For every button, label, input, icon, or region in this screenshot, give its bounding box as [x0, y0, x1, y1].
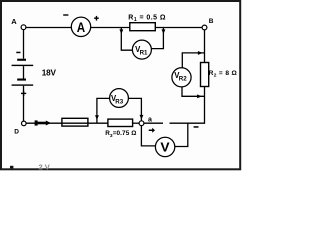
wire VR3 right branch — [128, 98, 141, 120]
node B — [202, 18, 214, 30]
svg-text:R2: R2 — [179, 75, 187, 82]
battery plus polarity — [21, 91, 26, 96]
current arrow I near node D — [35, 120, 51, 125]
wire R1 to node B — [155, 27, 202, 29]
svg-text:a: a — [148, 117, 152, 124]
voltmeter VR2 — [172, 68, 191, 87]
junction arrow VR2 bottom — [197, 94, 202, 98]
svg-text:18V: 18V — [42, 69, 57, 78]
voltmeter VR1 — [132, 40, 151, 59]
wire VR3 left branch — [97, 98, 110, 123]
svg-text:B: B — [209, 18, 214, 25]
ammeter A — [71, 17, 90, 36]
junction arrow right of R1 (from VR1) — [162, 29, 166, 34]
fuse box — [62, 118, 88, 126]
battery minus polarity — [16, 52, 20, 54]
svg-text:A: A — [77, 20, 86, 35]
node D — [14, 121, 26, 135]
resistor R2 — [201, 63, 209, 87]
wire V meter left branch to node C — [141, 126, 155, 146]
wire VR2 bottom branch — [182, 87, 205, 97]
svg-text:R3: R3 — [115, 98, 123, 105]
bottom wire segment from gap to node C — [144, 122, 163, 124]
wire VR1 right branch — [151, 28, 163, 49]
V meter plus polarity — [149, 128, 155, 133]
cropped answer text fragment at bottom — [10, 163, 50, 172]
svg-text:V: V — [160, 140, 170, 155]
junction arrow left of R1 (to VR1) — [119, 29, 123, 34]
junction arrow VR3 left — [95, 115, 99, 120]
voltmeter V — [155, 137, 174, 156]
V meter minus polarity — [194, 126, 199, 128]
ammeter plus polarity — [94, 16, 99, 21]
wire battery down to node D — [23, 86, 25, 121]
node C — [139, 117, 152, 126]
wire node D to R3 (through fuse box) — [26, 122, 108, 124]
svg-text:2 V: 2 V — [39, 163, 50, 172]
wire node C to R3 — [133, 122, 140, 124]
wire V meter right branch — [175, 123, 188, 146]
svg-text:A: A — [11, 17, 17, 26]
resistor R1 — [130, 23, 156, 31]
voltmeter VR3 — [110, 89, 129, 108]
svg-text:R1: R1 — [140, 50, 148, 57]
wire A down to battery — [23, 30, 25, 59]
svg-text:D: D — [14, 128, 19, 135]
wire VR1 left branch — [121, 28, 132, 51]
wire A to ammeter — [26, 27, 72, 29]
ammeter minus polarity — [63, 14, 68, 15]
junction arrow VR3 right — [140, 115, 144, 120]
wire ammeter to R1 — [91, 27, 131, 29]
wire B down to R2 — [204, 30, 206, 63]
wire VR2 top branch — [182, 53, 204, 68]
wire R2 down to bottom-right corner — [170, 87, 205, 124]
junction arrow VR2 top — [198, 51, 203, 55]
resistor R3 — [108, 119, 133, 126]
battery 18V — [12, 59, 34, 86]
node A — [11, 17, 26, 29]
